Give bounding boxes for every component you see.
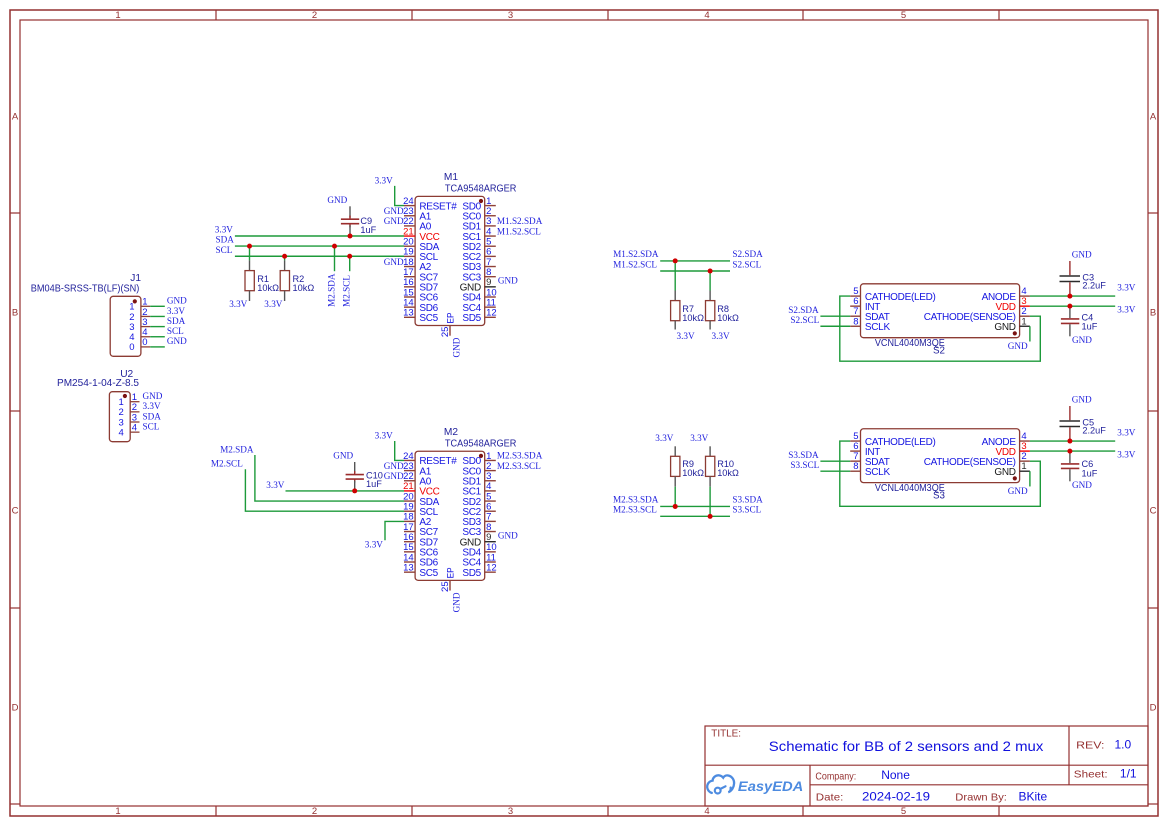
S3 pin 2 CATHODE(SENSOE) (924, 451, 1030, 468)
M2 pin 19 SCL (403, 502, 439, 518)
svg-text:GND: GND (167, 296, 187, 306)
svg-text:M1.S2.SDA: M1.S2.SDA (497, 216, 543, 226)
M2 pin-1 marker (479, 454, 483, 458)
svg-text:M2.S3.SDA: M2.S3.SDA (497, 451, 543, 461)
S3 pin 6 INT (850, 441, 880, 458)
svg-text:4: 4 (704, 10, 709, 21)
svg-text:1/1: 1/1 (1120, 766, 1137, 780)
M1 pin 7 SD3 (462, 257, 495, 273)
svg-text:GND: GND (384, 461, 404, 471)
svg-text:1uF: 1uF (1082, 468, 1098, 478)
svg-text:3.3V: 3.3V (655, 433, 673, 443)
multiplexer M1 TCA9548ARGER (415, 172, 516, 325)
M2 pin 4 SC1 (462, 481, 495, 497)
svg-text:5: 5 (901, 806, 906, 817)
svg-text:2024-02-19: 2024-02-19 (862, 790, 930, 804)
wire 3.3V to M1 VCC (235, 235, 404, 237)
svg-text:GND: GND (384, 257, 404, 267)
svg-text:EP: EP (446, 313, 457, 324)
svg-text:3.3V: 3.3V (1117, 305, 1135, 315)
svg-text:3.3V: 3.3V (167, 306, 185, 316)
capacitor C9 1uF (341, 206, 377, 236)
wire J1 pin 4 (150, 336, 165, 338)
svg-text:1uF: 1uF (1082, 322, 1098, 332)
M2 pin 12 SD5 (462, 562, 496, 578)
svg-text:3: 3 (508, 10, 513, 21)
svg-text:13: 13 (403, 308, 414, 319)
svg-text:3.3V: 3.3V (266, 480, 284, 490)
S3 pin 5 CATHODE(LED) (850, 431, 935, 448)
wire S2.SCL to S2 SCLK (820, 325, 850, 327)
svg-text:3.3V: 3.3V (143, 401, 161, 411)
S2 pin 3 VDD (995, 296, 1029, 313)
svg-text:SCL: SCL (143, 421, 160, 431)
svg-text:GND: GND (994, 322, 1015, 333)
resistor R9 10k (671, 446, 705, 506)
svg-text:GND: GND (384, 471, 404, 481)
svg-text:SD5: SD5 (462, 313, 481, 324)
svg-text:8: 8 (853, 316, 858, 327)
M2 pin 7 SD3 (462, 512, 495, 528)
junction C6/VDD (1067, 449, 1072, 454)
wire 3.3V to M2 pin 24 (395, 441, 404, 460)
U2 pin 2 (119, 402, 140, 418)
capacitor C6 1uF (1061, 451, 1098, 481)
resistor R8 10k (706, 271, 740, 330)
S2 pin 5 CATHODE(LED) (850, 286, 935, 303)
wire M2.SCL to M2 pin 19 (245, 469, 404, 511)
svg-text:M2.S3.SCL: M2.S3.SCL (613, 505, 657, 515)
wire M1.S2.SCL / S2.SCL (660, 270, 730, 272)
connector J1 (31, 273, 142, 357)
M2 pin 23 A1 (403, 461, 432, 477)
svg-text:SCL: SCL (167, 326, 184, 336)
S2 pin 6 INT (850, 296, 880, 313)
wire S2.SDA to S2 SDAT (820, 315, 850, 317)
svg-text:1uF: 1uF (366, 479, 382, 489)
svg-text:Sheet:: Sheet: (1074, 769, 1108, 780)
M1 pin 17 SC7 (403, 267, 439, 283)
svg-text:M2.SDA: M2.SDA (326, 273, 336, 307)
svg-text:4: 4 (132, 422, 137, 433)
wire SDA to M1 (235, 245, 404, 247)
wire S2 GND pin 1 (1029, 326, 1031, 341)
S3 pin-1 marker (1013, 476, 1017, 480)
M2 pin 18 A2 (403, 512, 432, 528)
svg-text:0: 0 (129, 342, 134, 353)
wire S2 cathode loop (840, 296, 1041, 361)
svg-text:1: 1 (1021, 461, 1026, 472)
svg-text:1: 1 (1021, 316, 1026, 327)
M2 pin 6 SC2 (462, 502, 495, 518)
svg-text:10kΩ: 10kΩ (682, 313, 704, 323)
resistor R1 10k (245, 246, 279, 301)
svg-text:BM04B-SRSS-TB(LF)(SN): BM04B-SRSS-TB(LF)(SN) (31, 283, 140, 294)
wire SCL to M1 (235, 255, 404, 257)
junction M2.SCL tap (347, 254, 352, 259)
wire 3.3V to M2 VCC (286, 490, 405, 492)
svg-text:12: 12 (486, 562, 497, 573)
junction C5/ANODE (1067, 439, 1072, 444)
svg-text:M2.S3.SDA: M2.S3.SDA (613, 495, 659, 505)
U2 pin 3 (119, 412, 140, 428)
EasyEDA logo (707, 775, 803, 793)
svg-text:10kΩ: 10kΩ (257, 283, 279, 293)
M2 pin 17 SC7 (403, 522, 439, 538)
svg-text:3.3V: 3.3V (677, 331, 695, 341)
svg-text:EP: EP (446, 567, 457, 578)
capacitor C4 1uF (1061, 306, 1098, 336)
svg-text:GND: GND (994, 467, 1015, 478)
resistor R10 10k (706, 446, 740, 516)
svg-text:GND: GND (498, 276, 518, 286)
wire M2.SCL tap (349, 256, 351, 271)
S2 pin 7 SDAT (850, 306, 890, 323)
svg-text:2: 2 (312, 10, 317, 21)
wire S3 ANODE to 3.3V (1030, 440, 1115, 442)
svg-text:3.3V: 3.3V (264, 299, 282, 309)
M2 pin 11 SC4 (462, 552, 496, 568)
svg-text:10kΩ: 10kΩ (682, 468, 704, 478)
S2 pin 1 GND (994, 316, 1030, 333)
S3 pin 1 GND (994, 461, 1030, 478)
svg-text:M2.SCL: M2.SCL (342, 275, 352, 307)
svg-text:SCLK: SCLK (865, 467, 891, 478)
wire 3.3V to M1 pin 24 (395, 186, 404, 206)
junction R8/SCL (708, 269, 713, 274)
svg-text:PM254-1-04-Z-8.5: PM254-1-04-Z-8.5 (57, 378, 139, 389)
junction R10/SCL (708, 514, 713, 519)
M1 pin 11 SC4 (462, 297, 496, 313)
junction R9/SDA (673, 504, 678, 509)
S2 pin 8 SCLK (850, 316, 890, 333)
M2 pin 2 SC0 (462, 461, 495, 477)
M1 pin 21 VCC (403, 226, 440, 242)
M1 pin 18 A2 (403, 257, 432, 273)
svg-text:GND: GND (167, 336, 187, 346)
wire S3 GND pin 1 (1029, 471, 1031, 486)
M2 pin 24 RESET# (403, 451, 457, 467)
svg-text:3.3V: 3.3V (365, 540, 383, 550)
S3 pin 7 SDAT (850, 451, 890, 468)
svg-text:10kΩ: 10kΩ (717, 468, 739, 478)
svg-text:2.2uF: 2.2uF (1082, 425, 1106, 435)
svg-text:M1.S2.SCL: M1.S2.SCL (613, 259, 657, 269)
svg-text:Date:: Date: (816, 793, 844, 804)
svg-text:C: C (12, 506, 19, 517)
M1 pin 19 SCL (403, 247, 439, 263)
M1 pin 14 SD6 (403, 297, 439, 313)
svg-text:B: B (1150, 308, 1156, 319)
S3 pin 8 SCLK (850, 461, 890, 478)
svg-text:Schematic for BB of 2 sensors: Schematic for BB of 2 sensors and 2 mux (769, 738, 1044, 754)
M1 pin 16 SD7 (403, 277, 439, 293)
J1 pin 0 (129, 337, 150, 353)
svg-text:TITLE:: TITLE: (711, 728, 741, 739)
junction C10/3.3V (352, 488, 357, 493)
svg-text:S2: S2 (933, 345, 945, 356)
wire S3.SDA to S3 SDAT (820, 460, 850, 462)
svg-text:M1.S2.SCL: M1.S2.SCL (497, 226, 541, 236)
resistor R2 10k (280, 256, 314, 301)
M2 pin 3 SD1 (462, 471, 495, 487)
U2 pin 1 (119, 392, 140, 408)
wire J1 pin 1 (150, 305, 165, 307)
wire S2 VDD to 3.3V (1030, 305, 1115, 307)
svg-text:M1.S2.SDA: M1.S2.SDA (613, 249, 659, 259)
wire S3 VDD to 3.3V (1030, 450, 1115, 452)
wire S3.SCL to S3 SCLK (820, 470, 850, 472)
capacitor C3 2.2uF (1060, 261, 1107, 296)
svg-text:SDA: SDA (216, 235, 235, 245)
M2 pin 9 GND (460, 532, 496, 548)
svg-text:M1: M1 (444, 172, 458, 183)
svg-text:S3.SDA: S3.SDA (788, 450, 819, 460)
svg-text:S3.SCL: S3.SCL (732, 505, 761, 515)
svg-text:Company:: Company: (815, 771, 856, 782)
sensor S3 VCNL4040M3QE (861, 429, 1020, 502)
M1 pin 9 GND (460, 277, 496, 293)
svg-text:GND: GND (384, 216, 404, 226)
M1 pin 8 SC3 (462, 267, 495, 283)
sensor S2 VCNL4040M3QE (861, 284, 1020, 357)
wire M2.SDA tap (334, 246, 336, 271)
svg-text:SCLK: SCLK (865, 322, 891, 333)
svg-text:C: C (1150, 506, 1157, 517)
svg-text:3.3V: 3.3V (1117, 428, 1135, 438)
svg-text:3: 3 (508, 806, 513, 817)
svg-text:None: None (881, 768, 910, 782)
J1 pin 1 (129, 297, 150, 313)
svg-text:3.3V: 3.3V (375, 431, 393, 441)
svg-text:GND: GND (327, 195, 347, 205)
svg-text:SCL: SCL (216, 245, 233, 255)
svg-text:S3.SDA: S3.SDA (732, 495, 763, 505)
M1 pin 3 SD1 (462, 216, 495, 232)
title block (705, 726, 1148, 806)
svg-text:TCA9548ARGER: TCA9548ARGER (445, 183, 517, 194)
svg-text:1uF: 1uF (360, 225, 376, 235)
M2 pin 13 SC5 (403, 562, 439, 578)
multiplexer M2 TCA9548ARGER (415, 427, 516, 580)
wire S2 ANODE to 3.3V (1030, 295, 1115, 297)
wire J1 pin 0 (150, 346, 165, 348)
svg-text:GND: GND (451, 592, 461, 612)
resistor R7 10k (671, 261, 705, 330)
svg-text:M2.SCL: M2.SCL (211, 459, 243, 469)
svg-text:3.3V: 3.3V (375, 175, 393, 185)
svg-text:3.3V: 3.3V (690, 433, 708, 443)
M1 pin 2 SC0 (462, 206, 495, 222)
svg-text:1: 1 (115, 806, 120, 817)
M1 pin 24 RESET# (403, 196, 457, 212)
M1 pin 22 A0 (403, 216, 432, 232)
svg-text:TCA9548ARGER: TCA9548ARGER (445, 438, 517, 449)
S3 pin 4 ANODE (982, 431, 1030, 448)
M1 pin 15 SC6 (403, 287, 439, 303)
capacitor C5 2.2uF (1060, 406, 1107, 441)
svg-text:13: 13 (403, 562, 414, 573)
svg-text:S2.SDA: S2.SDA (732, 249, 763, 259)
svg-text:GND: GND (333, 451, 353, 461)
svg-text:SD5: SD5 (462, 568, 481, 579)
svg-text:EasyEDA: EasyEDA (738, 778, 803, 794)
M1 pin 23 A1 (403, 206, 432, 222)
svg-text:B: B (12, 308, 18, 319)
svg-text:A: A (12, 112, 19, 123)
junction R2/SCL (282, 254, 287, 259)
M2 pin 20 SDA (403, 491, 440, 507)
svg-text:S2.SCL: S2.SCL (790, 315, 819, 325)
wire M1.S2.SDA / S2.SDA (660, 260, 730, 262)
M2 pin 22 A0 (403, 471, 432, 487)
M1 pin 20 SDA (403, 237, 440, 253)
svg-text:0: 0 (142, 337, 147, 348)
svg-text:8: 8 (853, 461, 858, 472)
M2 pin 16 SD7 (403, 532, 439, 548)
svg-text:S2.SCL: S2.SCL (732, 259, 761, 269)
wire M2.S3.SDA / S3.SDA (660, 505, 730, 507)
svg-text:10kΩ: 10kΩ (717, 313, 739, 323)
svg-text:Drawn By:: Drawn By: (955, 793, 1007, 804)
svg-text:BKite: BKite (1019, 789, 1048, 803)
svg-text:3.3V: 3.3V (229, 299, 247, 309)
wire M2.SDA to M2 pin 20 (255, 455, 404, 501)
svg-text:3.3V: 3.3V (1117, 283, 1135, 293)
svg-text:SC5: SC5 (419, 568, 438, 579)
svg-text:5: 5 (901, 10, 906, 21)
M2 pin 5 SD2 (462, 491, 495, 507)
svg-text:GND: GND (498, 531, 518, 541)
svg-text:SDA: SDA (167, 316, 186, 326)
svg-text:S2.SDA: S2.SDA (788, 305, 819, 315)
M2 pin 1 SD0 (462, 451, 495, 467)
J1 pin 2 (129, 307, 150, 323)
svg-text:M2.S3.SCL: M2.S3.SCL (497, 461, 541, 471)
junction M2.SDA tap (332, 244, 337, 249)
M1 pin 5 SD2 (462, 237, 495, 253)
svg-text:GND: GND (1008, 341, 1028, 351)
wire M2 A2 to 3.3V (385, 521, 404, 540)
svg-text:D: D (1150, 703, 1157, 714)
svg-text:REV:: REV: (1076, 741, 1104, 752)
M1 pin 12 SD5 (462, 308, 496, 324)
J1 pin-1 marker (133, 299, 137, 303)
capacitor C10 1uF (346, 462, 383, 491)
M1 pin 6 SC2 (462, 247, 495, 263)
M2 pin 25 EP (440, 567, 456, 592)
svg-text:GND: GND (1072, 335, 1092, 345)
svg-text:4: 4 (704, 806, 709, 817)
junction C9/3.3V (348, 234, 353, 239)
J1 pin 3 (129, 317, 150, 333)
M1 pin 10 SD4 (462, 287, 496, 303)
svg-text:25: 25 (440, 581, 451, 592)
M2 pin 8 SC3 (462, 522, 495, 538)
svg-text:3.3V: 3.3V (712, 331, 730, 341)
svg-text:10kΩ: 10kΩ (293, 283, 315, 293)
svg-text:25: 25 (440, 327, 451, 338)
svg-text:GND: GND (1008, 486, 1028, 496)
M1 pin 13 SC5 (403, 308, 439, 324)
wire S3 cathode loop (840, 441, 1041, 506)
svg-text:J1: J1 (130, 273, 141, 284)
svg-text:S3.SCL: S3.SCL (790, 460, 819, 470)
M2 pin 21 VCC (403, 481, 440, 497)
svg-text:GND: GND (451, 337, 461, 357)
M1 pin-1 marker (479, 199, 483, 203)
svg-text:M2: M2 (444, 427, 458, 438)
M1 pin 25 EP (440, 313, 456, 338)
svg-text:SC5: SC5 (419, 313, 438, 324)
M1 pin 1 SD0 (462, 196, 495, 212)
svg-text:2.2uF: 2.2uF (1082, 280, 1106, 290)
svg-text:3.3V: 3.3V (1117, 449, 1135, 459)
connector U2 (57, 369, 139, 442)
svg-text:1: 1 (115, 10, 120, 21)
S2 pin-1 marker (1013, 331, 1017, 335)
svg-text:D: D (12, 703, 19, 714)
J1 pin 4 (129, 327, 150, 343)
svg-text:GND: GND (1072, 395, 1092, 405)
wire M2.S3.SCL / S3.SCL (660, 515, 730, 517)
wire J1 pin 3 (150, 326, 165, 328)
M1 pin 4 SC1 (462, 226, 495, 242)
S3 pin 3 VDD (995, 441, 1029, 458)
S2 pin 4 ANODE (982, 286, 1030, 303)
svg-text:SDA: SDA (143, 411, 162, 421)
svg-text:12: 12 (486, 308, 497, 319)
M2 pin 10 SD4 (462, 542, 496, 558)
svg-text:M2.SDA: M2.SDA (220, 444, 254, 454)
junction R1/SDA (247, 244, 252, 249)
junction C3/ANODE (1067, 294, 1072, 299)
svg-text:4: 4 (119, 427, 124, 438)
U2 pin-1 marker (123, 394, 127, 398)
junction R7/SDA (673, 258, 678, 263)
svg-text:3.3V: 3.3V (215, 225, 233, 235)
svg-text:GND: GND (384, 206, 404, 216)
S2 pin 2 CATHODE(SENSOE) (924, 306, 1030, 323)
junction C4/VDD (1067, 304, 1072, 309)
svg-text:1.0: 1.0 (1115, 738, 1132, 752)
svg-text:GND: GND (1072, 480, 1092, 490)
wire J1 pin 2 (150, 315, 165, 317)
svg-text:GND: GND (143, 391, 163, 401)
M2 pin 14 SD6 (403, 552, 439, 568)
svg-text:A: A (1150, 112, 1157, 123)
svg-text:GND: GND (1072, 250, 1092, 260)
U2 pin 4 (119, 422, 140, 438)
M2 pin 15 SC6 (403, 542, 439, 558)
svg-text:2: 2 (312, 806, 317, 817)
svg-text:S3: S3 (933, 490, 946, 501)
